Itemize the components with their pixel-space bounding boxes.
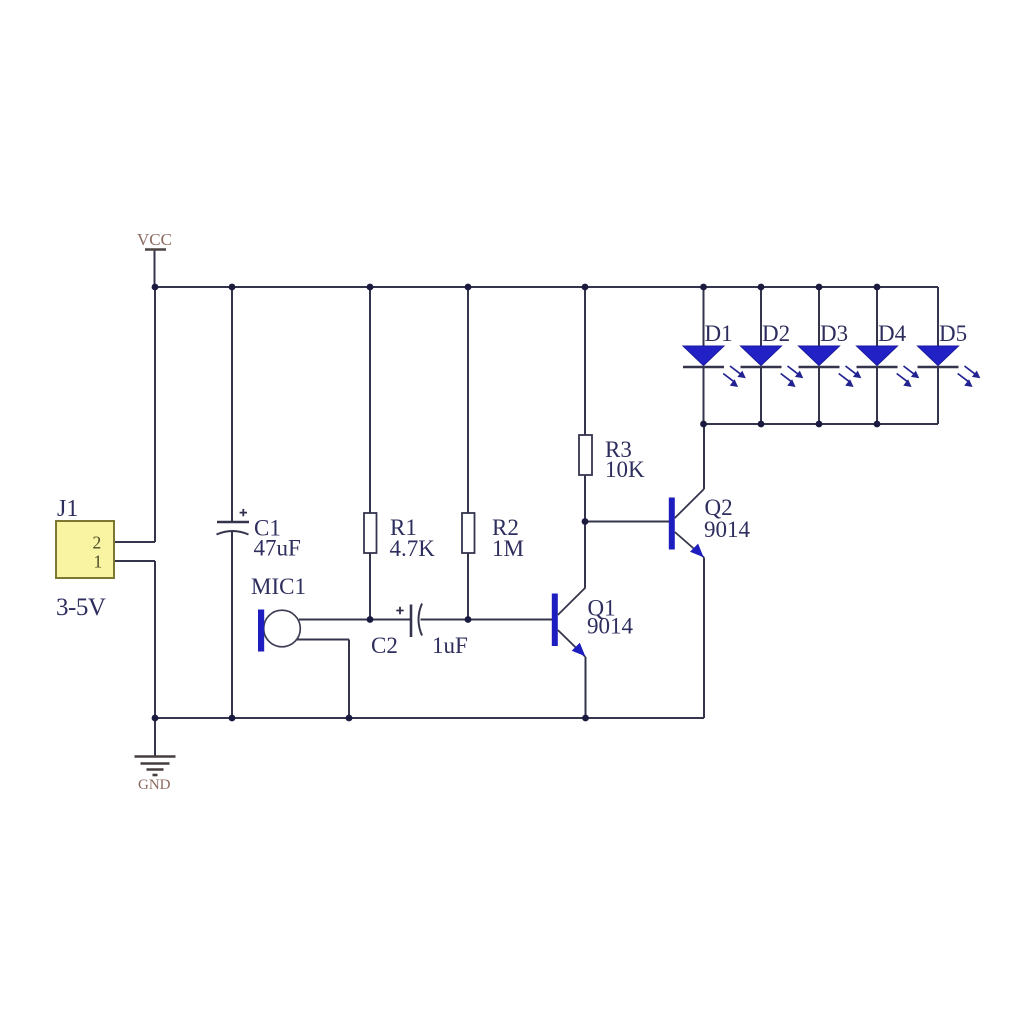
junction: D3 at top rail bbox=[816, 284, 823, 291]
svg-text:3-5V: 3-5V bbox=[56, 594, 106, 621]
LED D4 bbox=[857, 346, 920, 387]
wire: R1 bottom lead bbox=[369, 553, 371, 620]
junction: R2 at signal wire bbox=[465, 616, 472, 623]
resistor R3 10K bbox=[579, 435, 592, 475]
svg-text:VCC: VCC bbox=[137, 230, 172, 249]
wire: D1 anode lead bbox=[703, 287, 705, 346]
junction: D2 at top rail bbox=[758, 284, 765, 291]
LED D1 bbox=[683, 346, 746, 387]
wire: D2 cathode lead bbox=[760, 367, 762, 424]
svg-text:1uF: 1uF bbox=[432, 633, 468, 658]
wire: D3 anode lead bbox=[818, 287, 820, 346]
svg-text:1: 1 bbox=[94, 552, 103, 572]
svg-text:9014: 9014 bbox=[704, 517, 751, 542]
transistor Q2 NPN 9014 bbox=[669, 489, 704, 558]
capacitor C2 polarized 1uF bbox=[396, 604, 422, 638]
junction: D3 at LED rail bbox=[816, 421, 823, 428]
junction: R3 at top rail bbox=[582, 284, 589, 291]
wire: D1 cathode lead bbox=[703, 367, 705, 424]
svg-text:1M: 1M bbox=[492, 536, 524, 561]
wire: D5 anode lead bbox=[937, 287, 939, 346]
wire: mic lower terminal to bottom rail bbox=[297, 640, 349, 719]
wire: D5 cathode lead bbox=[937, 367, 939, 424]
junction: node A R3/Q1/Q2 bbox=[582, 518, 589, 525]
wire: D4 cathode lead bbox=[876, 367, 878, 424]
connector J1 bbox=[56, 521, 114, 578]
wire: D4 anode lead bbox=[876, 287, 878, 346]
junction: C1 at bottom rail bbox=[229, 715, 236, 722]
resistor R1 4.7K bbox=[364, 513, 377, 553]
LED D5 bbox=[918, 346, 981, 387]
junction: R1 at signal wire bbox=[367, 616, 374, 623]
wire: Q2 collector vertical to LED rail bbox=[703, 424, 705, 489]
ground GND symbol bbox=[135, 757, 176, 776]
svg-text:D3: D3 bbox=[820, 321, 848, 346]
wire: D2 anode lead bbox=[760, 287, 762, 346]
junction: D2 at LED rail bbox=[758, 421, 765, 428]
svg-text:10K: 10K bbox=[605, 457, 645, 482]
svg-text:MIC1: MIC1 bbox=[251, 574, 306, 599]
LED D3 bbox=[799, 346, 862, 387]
svg-text:D4: D4 bbox=[878, 321, 907, 346]
wire: R3 bottom lead to node A bbox=[584, 475, 586, 522]
junction: D4 at top rail bbox=[874, 284, 881, 291]
svg-text:9014: 9014 bbox=[587, 614, 634, 639]
wire: R3 top lead bbox=[584, 287, 586, 435]
power VCC symbol bbox=[145, 248, 166, 250]
wire: left column from rail to J1 pin 2 bbox=[114, 287, 155, 542]
wire: R2 top lead bbox=[467, 287, 469, 513]
wire: bottom ground rail bbox=[155, 717, 704, 719]
svg-text:C2: C2 bbox=[371, 633, 398, 658]
wire: C1 column bottom lead bbox=[231, 532, 233, 718]
svg-text:D2: D2 bbox=[762, 321, 790, 346]
wire: R2 bottom lead bbox=[467, 553, 469, 620]
junction: Q1 emitter at bottom rail bbox=[582, 715, 589, 722]
wire: J1 pin 1 to bottom rail bbox=[114, 561, 155, 718]
LED D2 bbox=[741, 346, 804, 387]
svg-text:GND: GND bbox=[138, 777, 171, 793]
microphone MIC1 bbox=[258, 610, 300, 652]
junction: D1 at top rail bbox=[700, 284, 707, 291]
wire: ground stub bbox=[154, 718, 156, 756]
resistor R2 1M bbox=[462, 513, 475, 553]
wire: R1 top lead bbox=[369, 287, 371, 513]
wire: C2 right plate to Q1 base bbox=[421, 619, 553, 621]
junction: R2 at top rail bbox=[465, 284, 472, 291]
junction: R1 at top rail bbox=[367, 284, 374, 291]
svg-text:47uF: 47uF bbox=[254, 536, 301, 561]
wire: C1 column top lead bbox=[231, 287, 233, 522]
wire: Q2 emitter vertical to bottom rail bbox=[703, 558, 705, 719]
junction: C1 at top rail bbox=[229, 284, 236, 291]
junction: MIC1 at bottom rail bbox=[346, 715, 353, 722]
junction: D4 at LED rail bbox=[874, 421, 881, 428]
svg-text:2: 2 bbox=[93, 533, 102, 553]
junction: VCC at left column bbox=[152, 284, 159, 291]
wire: LED cathode rail bbox=[704, 423, 938, 425]
wire: node A down to Q1 collector bbox=[584, 522, 586, 588]
svg-text:D1: D1 bbox=[705, 321, 733, 346]
svg-text:J1: J1 bbox=[57, 496, 78, 522]
wire: D3 cathode lead bbox=[818, 367, 820, 424]
wire: Q1 emitter vertical to bottom rail bbox=[585, 657, 587, 718]
transistor Q1 NPN 9014 bbox=[552, 588, 586, 658]
wire: VCC stub bbox=[154, 250, 156, 287]
capacitor C1 polarized 47uF bbox=[217, 509, 250, 535]
svg-text:4.7K: 4.7K bbox=[390, 536, 436, 561]
junction: GND tap at bottom rail bbox=[152, 715, 159, 722]
wire: mic output to C2 left plate bbox=[299, 619, 411, 621]
wire: VCC top rail bbox=[155, 286, 938, 288]
junction: Q2 collector at LED rail bbox=[700, 421, 707, 428]
svg-text:D5: D5 bbox=[939, 321, 967, 346]
wire: Q2 base wire from node A bbox=[585, 521, 669, 523]
